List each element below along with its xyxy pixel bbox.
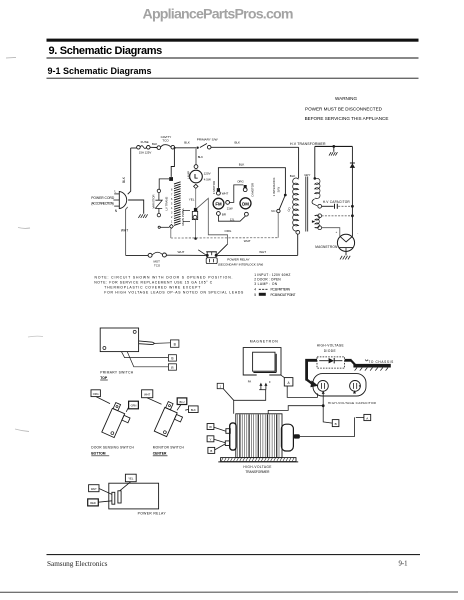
svg-text:GRY: GRY bbox=[304, 173, 310, 177]
svg-text:120V: 120V bbox=[204, 171, 211, 175]
svg-text:BLK: BLK bbox=[198, 155, 203, 159]
svg-text:WHT: WHT bbox=[222, 192, 229, 196]
wire: plug neutral down (WHT) bbox=[121, 207, 128, 256]
svg-text:4.5W: 4.5W bbox=[204, 177, 211, 181]
ground: power cord earth bbox=[128, 200, 148, 218]
svg-text:1 INTERLOCK: 1 INTERLOCK bbox=[272, 177, 276, 196]
node: capacitor to H.V line bbox=[351, 205, 354, 208]
svg-text:WHT: WHT bbox=[178, 250, 185, 254]
svg-text:Y: Y bbox=[210, 438, 212, 442]
wire: relay coil drive (ORG) from PWBA bbox=[197, 198, 251, 255]
svg-text:FOR HIGH VOLTAGE LEADS OP-AS N: FOR HIGH VOLTAGE LEADS OP-AS NOTED ON SP… bbox=[104, 291, 244, 295]
svg-text:WARNING: WARNING bbox=[335, 96, 357, 101]
svg-text:DOOR SENSING SWITCH: DOOR SENSING SWITCH bbox=[91, 445, 134, 449]
svg-text:B: B bbox=[171, 357, 173, 361]
svg-text:15A 125V: 15A 125V bbox=[139, 151, 152, 155]
svg-text:MONITOR SWITCH: MONITOR SWITCH bbox=[153, 445, 185, 449]
svg-text:BLK: BLK bbox=[239, 162, 245, 166]
legend notes bbox=[94, 275, 244, 294]
svg-text:HIGH-VOLTAGE CAPACITOR: HIGH-VOLTAGE CAPACITOR bbox=[328, 401, 377, 405]
wire: plug line to fuse (BLK, left vertical + top run) bbox=[122, 148, 136, 194]
svg-text:POWER CORD: POWER CORD bbox=[91, 196, 115, 200]
svg-text:1 INPUT : 120V 60HZ: 1 INPUT : 120V 60HZ bbox=[254, 273, 290, 277]
pcb in/out point (black square) on lamp line bbox=[194, 208, 197, 211]
transformer right bobbin bbox=[281, 424, 300, 451]
tag ORG bbox=[91, 390, 110, 404]
magnetron filament pins FA / F bbox=[248, 380, 271, 390]
svg-text:H.V CAPACITOR: H.V CAPACITOR bbox=[323, 200, 351, 204]
svg-text:(AC CONNECTION): (AC CONNECTION) bbox=[91, 202, 114, 206]
svg-text:YEL: YEL bbox=[189, 197, 195, 201]
fan motor FM bbox=[212, 181, 233, 217]
svg-text:P.C.B IN/OUT POINT: P.C.B IN/OUT POINT bbox=[271, 293, 296, 297]
svg-text:WHT: WHT bbox=[91, 487, 97, 491]
svg-text:WHT: WHT bbox=[121, 229, 128, 233]
svg-text:4: 4 bbox=[254, 288, 256, 292]
wire: capacitor to transformer top bbox=[268, 406, 323, 414]
subsection title 9-1 Schematic Diagrams bbox=[47, 66, 419, 78]
svg-text:TRANSFORMER: TRANSFORMER bbox=[245, 470, 270, 474]
svg-text:POWER RELAY: POWER RELAY bbox=[138, 511, 167, 515]
high voltage transformer (layout) bbox=[236, 414, 282, 458]
svg-text:ORG: ORG bbox=[237, 180, 244, 184]
thick wire: diode to capacitor bbox=[307, 360, 319, 387]
svg-text:FUSE: FUSE bbox=[141, 140, 149, 144]
terminal tag B (primary switch) bbox=[171, 340, 179, 347]
svg-text:BLK: BLK bbox=[290, 174, 296, 178]
svg-text:GRN: GRN bbox=[131, 404, 137, 408]
H.V transformer label bbox=[290, 142, 326, 146]
svg-text:21W: 21W bbox=[227, 206, 233, 210]
H.V transformer secondary winding bbox=[304, 146, 321, 208]
svg-text:9-1: 9-1 bbox=[399, 561, 408, 568]
svg-text:BLK: BLK bbox=[191, 408, 196, 412]
tag WHT (monitor switch) bbox=[142, 390, 162, 404]
svg-text:ORG: ORG bbox=[93, 392, 99, 396]
power relay coil bbox=[206, 244, 263, 266]
svg-text:PRIMARY SWITCH: PRIMARY SWITCH bbox=[100, 370, 134, 374]
header logo AppliancePartsPros.com bbox=[143, 7, 294, 23]
tag WHT (relay) bbox=[89, 485, 112, 495]
power cord plug (AC connection) bbox=[91, 189, 126, 213]
footer rule bbox=[47, 554, 421, 556]
svg-text:F MOTOR: F MOTOR bbox=[212, 181, 216, 194]
svg-text:YEL: YEL bbox=[128, 477, 134, 481]
svg-text:POWER MUST BE DISCONNECTED: POWER MUST BE DISCONNECTED bbox=[305, 106, 383, 111]
svg-text:LAMP: LAMP bbox=[186, 171, 190, 179]
wire: top H.V run with ground bbox=[315, 145, 353, 147]
wire: capacitor to tag B bbox=[323, 406, 332, 423]
svg-text:LV TRANS: LV TRANS bbox=[165, 197, 169, 211]
wire: FM to DM top (ORG) bbox=[230, 180, 245, 203]
svg-text:HIGH-VOLTAGE: HIGH-VOLTAGE bbox=[317, 344, 344, 348]
svg-text:TO CHASSIS: TO CHASSIS bbox=[368, 360, 393, 364]
wire: LV bottom to pcb net (dashed) bbox=[171, 229, 278, 239]
fuse 15A 125V bbox=[137, 140, 158, 154]
svg-text:DIODE: DIODE bbox=[324, 349, 336, 353]
wire: relay to H.V transformer primary bottom (WHT) bbox=[218, 234, 298, 255]
power relay (layout) bbox=[109, 483, 167, 515]
svg-text:BLK: BLK bbox=[122, 176, 126, 183]
svg-text:BLK: BLK bbox=[235, 140, 241, 144]
svg-text:B: B bbox=[210, 449, 212, 453]
LV transformer primary (main PWBA) bbox=[158, 148, 190, 228]
title bar bbox=[47, 39, 419, 42]
svg-text:MAGNETRON: MAGNETRON bbox=[250, 339, 279, 343]
svg-text:FA: FA bbox=[248, 380, 252, 384]
primary switch (layout box) bbox=[100, 328, 170, 380]
svg-text:L: L bbox=[194, 174, 198, 181]
H.V transformer core bbox=[306, 177, 308, 232]
tag BLK bbox=[185, 406, 198, 413]
wires primary switch bottom terminals bbox=[121, 352, 168, 367]
svg-text:BOTTOM: BOTTOM bbox=[91, 452, 105, 456]
wire: PWBA line down to node bbox=[195, 220, 197, 239]
warning note bbox=[305, 96, 389, 121]
tag Y bbox=[207, 436, 225, 443]
stray pencil marks left margin bbox=[15, 228, 43, 432]
svg-text:P.C.B PATTERN: P.C.B PATTERN bbox=[271, 288, 291, 292]
svg-text:-: - bbox=[357, 232, 358, 236]
svg-text:W: W bbox=[209, 425, 212, 429]
monitor switch (center) bbox=[154, 401, 186, 439]
svg-text:NOTE: FOR SERVICE REPLACEMENT: NOTE: FOR SERVICE REPLACEMENT USE 15 GA … bbox=[94, 280, 213, 284]
svg-text:5: 5 bbox=[254, 293, 256, 297]
high voltage capacitor (layout) bbox=[313, 374, 377, 405]
svg-text:MAIN PWBA: MAIN PWBA bbox=[181, 208, 185, 225]
wire: main BLK run to H.V transformer bbox=[211, 140, 299, 147]
H.V capacitor (schematic) bbox=[322, 200, 352, 209]
ground: H.V transformer secondary bbox=[329, 146, 337, 155]
svg-text:L: L bbox=[115, 189, 117, 193]
svg-text:TCO: TCO bbox=[154, 263, 161, 267]
svg-text:AppliancePartsPros.com: AppliancePartsPros.com bbox=[143, 7, 294, 23]
wire: filament top to H.V line (dashed) bbox=[322, 215, 352, 217]
wire: TCO to relay bbox=[166, 250, 206, 256]
magnetron TCO (MGT TCO) bbox=[148, 252, 166, 267]
transformer left bobbin bbox=[225, 423, 236, 450]
svg-text:3 LAMP : ON: 3 LAMP : ON bbox=[254, 282, 278, 286]
svg-text:NOTE: CIRCUIT SHOWN WITH DOOR: NOTE: CIRCUIT SHOWN WITH DOOR S OPENED P… bbox=[95, 275, 233, 279]
terminal tag (lower) bbox=[168, 364, 176, 370]
label door sensing switch bbox=[91, 445, 134, 455]
tag RED (relay) bbox=[88, 499, 112, 506]
tag A (right) bbox=[356, 414, 371, 420]
svg-text:TCO: TCO bbox=[162, 138, 169, 142]
section title 9. Schematic Diagrams bbox=[47, 45, 419, 58]
svg-text:NC: NC bbox=[271, 209, 275, 213]
varistor across LV primary bbox=[151, 179, 169, 217]
footer left text bbox=[47, 560, 108, 568]
tag B (capacitor) bbox=[332, 420, 339, 427]
primary switch S/W bbox=[197, 137, 218, 149]
svg-text:BEFORE SERVICING THIS APPLIANC: BEFORE SERVICING THIS APPLIANCE bbox=[305, 116, 389, 121]
lamp L 120V 4.5W bbox=[186, 149, 211, 189]
svg-text:BLU: BLU bbox=[179, 400, 184, 404]
svg-text:+: + bbox=[336, 230, 338, 234]
H.V transformer filament winding bbox=[312, 214, 322, 230]
label monitor switch bbox=[153, 445, 185, 455]
tag A (magnetron) bbox=[281, 375, 293, 386]
svg-text:12L: 12L bbox=[230, 218, 235, 222]
wire: interlock NC to pcb net bbox=[277, 213, 279, 238]
ground: magnetron case bbox=[340, 251, 350, 259]
svg-text:B: B bbox=[335, 422, 337, 426]
transformer base plate bbox=[218, 458, 298, 474]
svg-text:(SECONDARY INTERLOCK S/W): (SECONDARY INTERLOCK S/W) bbox=[218, 263, 263, 267]
tag 1 bbox=[217, 383, 223, 388]
chassis bar TO CHASSIS bbox=[353, 360, 393, 371]
tag BLU bbox=[177, 398, 187, 410]
svg-text:H.V TRANSFORMER: H.V TRANSFORMER bbox=[290, 142, 326, 146]
1st interlock switch bbox=[271, 177, 292, 213]
tag GRN bbox=[126, 401, 138, 412]
svg-text:MAGNETRON: MAGNETRON bbox=[315, 245, 338, 249]
svg-text:D MOTOR: D MOTOR bbox=[251, 183, 255, 197]
svg-text:2 DOOR : OPEN: 2 DOOR : OPEN bbox=[254, 277, 281, 281]
wire: transformer right terminal to tag A bbox=[300, 417, 355, 436]
wire: capacitor left terminal down bbox=[322, 394, 324, 406]
legend list bbox=[254, 273, 295, 297]
svg-text:VARISTOR: VARISTOR bbox=[151, 194, 155, 208]
tag YEL (relay) bbox=[120, 474, 137, 491]
node: filament tap on H.V line bbox=[351, 214, 354, 217]
stray mark left margin bbox=[6, 57, 16, 60]
door sensing switch (bottom) bbox=[102, 402, 134, 440]
wire: bottom WHT return run bbox=[126, 254, 149, 256]
footer bottom rule bbox=[0, 591, 458, 593]
magnetron (schematic) bbox=[315, 230, 358, 251]
component on main PWBA (sensor) bbox=[192, 211, 197, 219]
svg-text:WHT: WHT bbox=[244, 239, 251, 243]
node: junction after TCO bbox=[174, 141, 196, 149]
high voltage diode (schematic) bbox=[350, 146, 355, 236]
svg-text:9. Schematic Diagrams: 9. Schematic Diagrams bbox=[49, 45, 163, 57]
svg-text:FM: FM bbox=[215, 202, 222, 207]
svg-text:S/W: S/W bbox=[277, 187, 281, 193]
svg-text:WHT: WHT bbox=[144, 393, 150, 397]
node: lamp branch junction bbox=[196, 147, 198, 149]
svg-text:THERMOPLASTIC COVERED WIRE EXC: THERMOPLASTIC COVERED WIRE EXCEPT bbox=[104, 285, 200, 289]
wire: filament bottom to magnetron bbox=[322, 228, 340, 237]
svg-text:DM: DM bbox=[242, 201, 249, 206]
svg-text:ORG: ORG bbox=[225, 229, 233, 233]
svg-text:F: F bbox=[269, 380, 271, 384]
svg-text:Samsung Electronics: Samsung Electronics bbox=[47, 560, 108, 568]
cavity TCO bbox=[157, 135, 175, 150]
svg-text:9-1 Schematic Diagrams: 9-1 Schematic Diagrams bbox=[48, 66, 152, 76]
svg-text:POWER RELAY: POWER RELAY bbox=[227, 258, 249, 262]
svg-text:PRIMARY S/W: PRIMARY S/W bbox=[197, 137, 218, 141]
tag W bbox=[207, 424, 226, 432]
magnetron (layout box) bbox=[243, 339, 281, 375]
wire: lamp to main PWBA (YEL, pcb pattern) bbox=[189, 188, 196, 207]
svg-text:HIGH-VOLTAGE: HIGH-VOLTAGE bbox=[243, 465, 271, 469]
power relay contacts bbox=[206, 252, 218, 257]
wire: second BLK run (F motor / interlock feed) bbox=[218, 162, 285, 193]
tag B (transformer) bbox=[208, 444, 225, 454]
footer page number bbox=[399, 561, 408, 568]
svg-text:CENTER: CENTER bbox=[153, 452, 167, 456]
svg-text:RED: RED bbox=[90, 501, 96, 505]
drive motor DM bbox=[240, 183, 255, 216]
terminal tag (mid) bbox=[168, 355, 176, 361]
svg-text:TOP: TOP bbox=[100, 376, 108, 380]
thick wire: diode to chassis bbox=[345, 360, 356, 365]
svg-text:BR: BR bbox=[222, 213, 226, 217]
wire: pins to transformer and tag 1 bbox=[223, 389, 266, 414]
node: ground junction on H.V run bbox=[332, 145, 335, 148]
svg-text:BLK: BLK bbox=[152, 142, 157, 146]
wire: FM bottom to DM bottom bbox=[218, 215, 245, 221]
H.V transformer primary winding bbox=[290, 147, 300, 234]
svg-text:WHT: WHT bbox=[259, 250, 266, 254]
node: PWBA junction dot bbox=[194, 237, 197, 240]
high voltage diode (layout) bbox=[317, 344, 345, 369]
label MAIN PWBA bbox=[181, 208, 185, 225]
wire: tag A to capacitor bbox=[287, 386, 317, 397]
svg-text:A: A bbox=[366, 416, 368, 420]
node: capacitor net junction bbox=[322, 404, 325, 407]
svg-text:BLK: BLK bbox=[184, 141, 190, 145]
